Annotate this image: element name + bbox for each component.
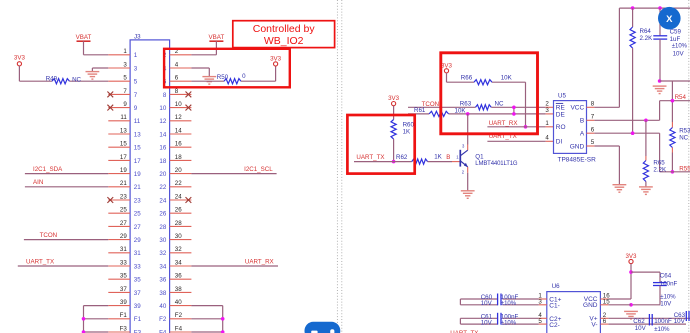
svg-text:20: 20 <box>159 171 166 178</box>
svg-text:10: 10 <box>175 101 182 108</box>
svg-text:35: 35 <box>134 277 141 284</box>
svg-text:16: 16 <box>175 141 182 148</box>
svg-text:Controlled by: Controlled by <box>253 23 316 35</box>
svg-text:C2-: C2- <box>549 322 559 329</box>
svg-text:15: 15 <box>603 299 610 306</box>
svg-text:19: 19 <box>134 171 141 178</box>
svg-text:4: 4 <box>545 135 549 142</box>
svg-text:34: 34 <box>175 259 182 266</box>
svg-text:12: 12 <box>175 114 182 121</box>
svg-text:2.2K: 2.2K <box>653 167 667 174</box>
svg-text:AIN: AIN <box>33 179 43 186</box>
svg-text:32: 32 <box>159 250 166 257</box>
svg-text:13: 13 <box>120 127 127 134</box>
svg-text:V-: V- <box>591 322 597 329</box>
svg-text:R61: R61 <box>414 107 426 114</box>
svg-text:NC: NC <box>72 77 81 84</box>
svg-text:40: 40 <box>175 299 182 306</box>
svg-text:39: 39 <box>134 303 141 310</box>
svg-text:Q1: Q1 <box>475 153 484 160</box>
svg-text:6: 6 <box>175 75 179 82</box>
svg-text:±10%: ±10% <box>654 327 670 333</box>
svg-text:17: 17 <box>120 154 127 161</box>
svg-text:20: 20 <box>175 167 182 174</box>
svg-text:10: 10 <box>159 105 166 112</box>
svg-text:34: 34 <box>159 263 166 270</box>
svg-text:U6: U6 <box>552 283 560 290</box>
svg-text:10V: 10V <box>674 318 686 325</box>
svg-text:F1: F1 <box>134 316 142 323</box>
svg-text:C64: C64 <box>660 273 672 280</box>
svg-text:27: 27 <box>134 224 141 231</box>
svg-text:1K: 1K <box>434 153 442 160</box>
svg-text:13: 13 <box>134 131 141 138</box>
svg-text:25: 25 <box>134 211 141 218</box>
svg-text:VBAT: VBAT <box>209 34 225 41</box>
svg-text:I2C1_SCL: I2C1_SCL <box>244 166 273 173</box>
svg-text:24: 24 <box>175 193 182 200</box>
svg-text:17: 17 <box>134 158 141 165</box>
svg-text:R54: R54 <box>675 94 687 101</box>
svg-text:100nF: 100nF <box>654 318 672 325</box>
svg-text:5: 5 <box>123 75 127 82</box>
svg-text:16: 16 <box>159 145 166 152</box>
svg-text:B: B <box>446 154 450 161</box>
svg-text:40: 40 <box>159 303 166 310</box>
svg-text:1: 1 <box>545 120 549 127</box>
svg-text:28: 28 <box>159 224 166 231</box>
svg-text:R60: R60 <box>403 122 415 129</box>
svg-text:10V: 10V <box>481 300 493 307</box>
svg-text:0: 0 <box>242 73 246 80</box>
svg-text:15: 15 <box>134 145 141 152</box>
svg-text:29: 29 <box>120 233 127 240</box>
svg-text:R55: R55 <box>679 166 690 173</box>
svg-text:NC: NC <box>495 101 504 108</box>
svg-text:9: 9 <box>123 101 127 108</box>
svg-text:5: 5 <box>134 79 138 86</box>
svg-text:10V: 10V <box>635 325 647 332</box>
svg-text:B: B <box>580 118 584 125</box>
svg-text:F4: F4 <box>159 329 167 333</box>
svg-text:±10%: ±10% <box>501 301 517 307</box>
svg-text:21: 21 <box>134 184 141 191</box>
svg-text:±10%: ±10% <box>672 44 688 50</box>
svg-text:R62: R62 <box>396 154 408 161</box>
svg-text:36: 36 <box>159 277 166 284</box>
svg-text:VBAT: VBAT <box>76 34 92 41</box>
svg-text:10K: 10K <box>501 75 513 82</box>
svg-text:7: 7 <box>134 92 138 99</box>
svg-text:10K: 10K <box>455 107 467 114</box>
svg-text:31: 31 <box>120 246 127 253</box>
svg-text:UART_RX: UART_RX <box>245 258 274 265</box>
svg-text:12: 12 <box>159 118 166 125</box>
svg-text:1K: 1K <box>403 129 411 136</box>
svg-text:F3: F3 <box>134 329 142 333</box>
svg-text:35: 35 <box>120 273 127 280</box>
svg-text:4: 4 <box>175 61 179 68</box>
svg-text:VCC: VCC <box>570 105 584 112</box>
svg-text:TP8485E-SR: TP8485E-SR <box>558 156 597 163</box>
svg-text:32: 32 <box>175 246 182 253</box>
svg-text:31: 31 <box>134 250 141 257</box>
svg-text:22: 22 <box>159 184 166 191</box>
svg-text:26: 26 <box>159 211 166 218</box>
svg-text:23: 23 <box>134 197 141 204</box>
svg-text:29: 29 <box>134 237 141 244</box>
svg-text:F3: F3 <box>120 325 128 332</box>
svg-text:8: 8 <box>163 92 167 99</box>
svg-text:5: 5 <box>538 318 542 325</box>
svg-text:GND: GND <box>570 143 585 150</box>
svg-text:LMBT4401LT1G: LMBT4401LT1G <box>475 161 518 167</box>
svg-text:10V: 10V <box>660 301 672 308</box>
svg-text:25: 25 <box>120 207 127 214</box>
svg-text:30: 30 <box>159 237 166 244</box>
svg-text:21: 21 <box>120 180 127 187</box>
svg-text:18: 18 <box>159 158 166 165</box>
svg-text:19: 19 <box>120 167 127 174</box>
svg-text:3: 3 <box>134 65 138 72</box>
svg-text:10V: 10V <box>673 50 685 57</box>
svg-text:18: 18 <box>175 154 182 161</box>
svg-text:UART_TX: UART_TX <box>356 154 384 161</box>
svg-text:36: 36 <box>175 273 182 280</box>
svg-text:R49: R49 <box>46 75 58 82</box>
svg-text:8: 8 <box>591 101 595 108</box>
svg-text:UART_TX: UART_TX <box>26 258 54 265</box>
svg-text:X: X <box>666 14 673 25</box>
svg-text:DE: DE <box>556 112 566 119</box>
svg-text:U5: U5 <box>558 92 566 99</box>
svg-text:NC: NC <box>679 134 688 141</box>
svg-text:6: 6 <box>603 318 607 325</box>
svg-text:37: 37 <box>120 286 127 293</box>
svg-text:33: 33 <box>134 263 141 270</box>
svg-text:7: 7 <box>123 88 127 95</box>
svg-text:R50: R50 <box>217 74 229 81</box>
svg-text:30: 30 <box>175 233 182 240</box>
svg-text:9: 9 <box>134 105 138 112</box>
svg-text:6: 6 <box>591 126 595 133</box>
svg-text:F2: F2 <box>175 312 183 319</box>
svg-text:38: 38 <box>175 286 182 293</box>
svg-text:24: 24 <box>159 197 166 204</box>
svg-text:8: 8 <box>175 88 179 95</box>
svg-text:GND: GND <box>583 302 598 309</box>
svg-text:±10%: ±10% <box>501 321 517 327</box>
svg-text:1: 1 <box>134 52 138 59</box>
svg-text:23: 23 <box>120 193 127 200</box>
svg-text:3: 3 <box>123 61 127 68</box>
svg-text:F1: F1 <box>120 312 128 319</box>
svg-text:27: 27 <box>120 220 127 227</box>
svg-text:UART_RX: UART_RX <box>489 120 518 127</box>
svg-text:10V: 10V <box>481 319 493 326</box>
svg-text:39: 39 <box>120 299 127 306</box>
svg-text:R64: R64 <box>640 28 652 35</box>
svg-text:A: A <box>580 131 585 138</box>
svg-text:F2: F2 <box>159 316 167 323</box>
svg-text:3: 3 <box>545 107 549 114</box>
svg-text:14: 14 <box>175 127 182 134</box>
svg-text:3V3: 3V3 <box>270 55 282 62</box>
svg-text:C1-: C1- <box>549 303 559 310</box>
svg-text:26: 26 <box>175 207 182 214</box>
svg-text:37: 37 <box>134 290 141 297</box>
svg-text:3: 3 <box>538 299 542 306</box>
svg-text:I2C1_SDA: I2C1_SDA <box>33 166 63 173</box>
svg-text:C59: C59 <box>670 29 682 36</box>
svg-text:3V3: 3V3 <box>14 54 26 61</box>
svg-text:R65: R65 <box>653 160 665 167</box>
svg-text:R66: R66 <box>461 75 473 82</box>
svg-text:100nF: 100nF <box>501 314 519 321</box>
svg-text:RO: RO <box>556 124 566 131</box>
svg-text:1: 1 <box>123 48 127 55</box>
svg-text:1uF: 1uF <box>670 36 681 43</box>
svg-text:38: 38 <box>159 290 166 297</box>
svg-text:11: 11 <box>134 118 141 125</box>
svg-text:2.2K: 2.2K <box>640 35 654 42</box>
svg-text:DI: DI <box>556 139 563 146</box>
svg-text:TCON: TCON <box>40 232 58 239</box>
svg-text:33: 33 <box>120 259 127 266</box>
svg-text:7: 7 <box>591 114 595 121</box>
svg-text:5: 5 <box>591 139 595 146</box>
svg-text:14: 14 <box>159 131 166 138</box>
svg-text:15: 15 <box>120 141 127 148</box>
svg-text:11: 11 <box>120 114 127 121</box>
svg-text:100nF: 100nF <box>660 280 678 287</box>
svg-text:100nF: 100nF <box>501 294 519 301</box>
svg-text:22: 22 <box>175 180 182 187</box>
svg-text:28: 28 <box>175 220 182 227</box>
svg-text:F4: F4 <box>175 325 183 332</box>
svg-text:WB_IO2: WB_IO2 <box>264 35 304 47</box>
